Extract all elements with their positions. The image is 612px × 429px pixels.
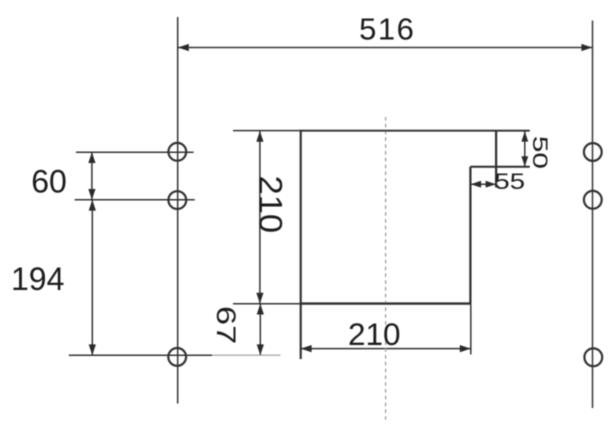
svg-text:50: 50 <box>528 136 551 169</box>
svg-text:210: 210 <box>252 175 288 233</box>
svg-text:55: 55 <box>494 170 525 195</box>
svg-text:516: 516 <box>359 11 415 46</box>
svg-text:60: 60 <box>31 164 67 200</box>
svg-text:210: 210 <box>348 316 401 352</box>
svg-text:67: 67 <box>211 306 242 344</box>
svg-text:194: 194 <box>11 261 64 297</box>
